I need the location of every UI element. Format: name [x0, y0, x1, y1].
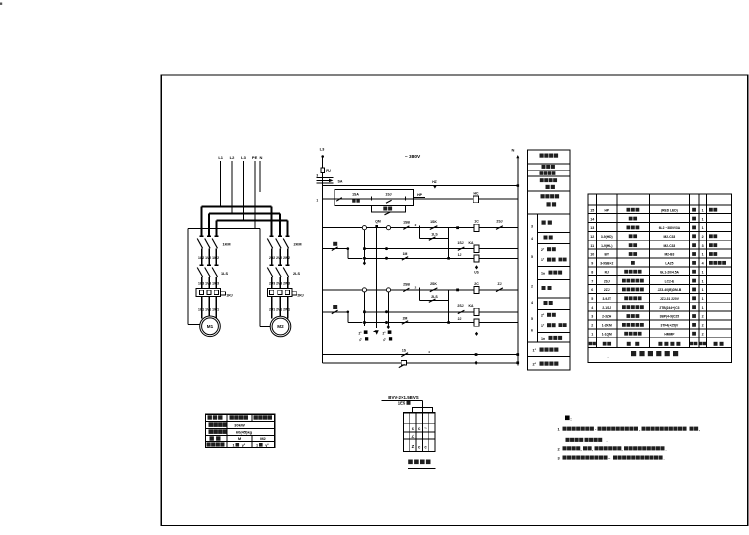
svg-text:1SK: 1SK — [430, 220, 437, 224]
svg-text:2: 2 — [702, 315, 704, 319]
svg-text:1SJ: 1SJ — [457, 241, 463, 245]
svg-text:7: 7 — [591, 279, 593, 283]
coil 2 row3 — [474, 319, 479, 326]
contact 2 row3 — [402, 321, 408, 325]
svg-text:1RJ: 1RJ — [226, 293, 232, 297]
wire control row 2 — [323, 198, 518, 200]
svg-text:3BP(4-9)C25: 3BP(4-9)C25 — [660, 315, 680, 319]
svg-text:QM: QM — [375, 220, 381, 224]
label 2 branch — [333, 305, 337, 309]
control section 1 — [323, 220, 518, 275]
control section 2 — [323, 282, 518, 336]
svg-text:2: 2 — [702, 235, 704, 239]
time relay sub-box label — [383, 207, 392, 211]
svg-text:2-1SJ: 2-1SJ — [602, 306, 611, 310]
wire motor2 leads — [272, 297, 288, 319]
svg-text:2LS: 2LS — [431, 295, 438, 299]
svg-text:1C: 1C — [474, 220, 479, 224]
svg-text:5: 5 — [531, 317, 533, 321]
wire bus drop left pole3 — [215, 221, 217, 237]
junction square 1 mid — [456, 226, 459, 229]
contact 2LS in loop — [429, 299, 436, 302]
wire 2 start row — [323, 289, 518, 291]
wire bottom row A — [323, 354, 518, 356]
svg-text:1SJ: 1SJ — [385, 193, 391, 197]
wire 1 row2 — [364, 248, 517, 250]
svg-text:FU: FU — [326, 169, 331, 173]
legend text rows — [540, 154, 560, 207]
svg-text:1U1 1V1 1W1: 1U1 1V1 1W1 — [198, 308, 219, 312]
junction square 2 mid — [456, 289, 459, 292]
svg-text:2J: 2J — [458, 317, 462, 321]
svg-text:JZJ-31 220V: JZJ-31 220V — [660, 297, 680, 301]
contact 1SA — [336, 198, 342, 202]
svg-text:1KM: 1KM — [222, 243, 230, 247]
busbar phase B — [209, 213, 280, 215]
wire feeder PE — [254, 161, 256, 229]
svg-text:L3: L3 — [241, 155, 246, 160]
svg-text:2LS: 2LS — [293, 272, 300, 276]
label 1 branch — [333, 242, 337, 246]
contact below row B — [399, 364, 405, 367]
svg-text:HMMP: HMMP — [664, 332, 675, 336]
diamond end 1A — [363, 261, 366, 265]
svg-text:GL1-20/4.5A: GL1-20/4.5A — [660, 270, 680, 274]
svg-text:N: N — [512, 148, 515, 153]
contact 2 branch — [332, 310, 338, 314]
svg-text:1±: 1± — [541, 272, 545, 276]
svg-text:.: . — [664, 456, 665, 461]
junction square rowA right — [516, 353, 519, 356]
contact below sub-box — [385, 212, 391, 215]
svg-text:PE: PE — [252, 155, 258, 160]
wire 1A column — [363, 230, 365, 262]
wire bus drop right pole2 — [279, 214, 281, 237]
junction square 2A3 — [363, 321, 366, 324]
svg-text:JZ3-40(B)DM-B: JZ3-40(B)DM-B — [658, 288, 682, 292]
note line 2 — [558, 446, 667, 451]
junction dot 2B2 — [385, 310, 388, 313]
svg-text:5: 5 — [531, 255, 533, 259]
svg-text:1-1QM: 1-1QM — [602, 332, 612, 336]
junction dot 2B3 — [385, 321, 388, 324]
contact 1 row2 — [458, 247, 465, 250]
pump data table text — [207, 415, 273, 447]
svg-text:BVV-2×1.5BVS: BVV-2×1.5BVS — [388, 395, 418, 400]
svg-text:LC2-E: LC2-E — [665, 279, 675, 283]
legend bottom row 1 — [533, 348, 559, 353]
wire right rail N — [517, 156, 519, 365]
svg-text:1: 1 — [702, 306, 704, 310]
svg-text:2: 2 — [702, 324, 704, 328]
junction arrow HZ — [432, 180, 437, 189]
note line 1 — [558, 427, 701, 432]
wire 2 junction column — [448, 290, 450, 323]
breaker 1LS contacts — [197, 265, 218, 288]
svg-text:3: 3 — [702, 244, 704, 248]
svg-text:1M: 1M — [403, 252, 408, 256]
svg-text:,: , — [639, 427, 640, 432]
coil 2C — [474, 286, 479, 293]
wire feeder N — [259, 161, 261, 192]
svg-text:N: N — [260, 155, 263, 160]
svg-text:11: 11 — [590, 244, 594, 248]
svg-text:1S: 1S — [402, 348, 407, 352]
svg-text:HC: HC — [474, 192, 479, 196]
svg-text:M2-C33: M2-C33 — [664, 244, 676, 248]
parts table title — [607, 351, 678, 359]
svg-text:2°: 2° — [533, 363, 537, 367]
svg-text:BY: BY — [604, 253, 609, 257]
svg-text:HP: HP — [604, 208, 609, 212]
contact 1SB — [403, 226, 409, 230]
thermal overload 2RJ — [267, 289, 297, 297]
legend bottom row 2 — [533, 362, 559, 367]
junction square rowA mid — [475, 353, 478, 356]
diamond below coil 2 — [475, 332, 478, 336]
junction arrow N rail top — [516, 155, 519, 158]
coil 1 row3 — [474, 255, 479, 262]
svg-text:3: 3 — [316, 173, 318, 177]
svg-text:6L2 ~380V/3A: 6L2 ~380V/3A — [659, 226, 681, 230]
legend table frame — [527, 150, 570, 370]
svg-text:1: 1 — [702, 217, 704, 221]
thermal overload 1RJ — [196, 289, 226, 297]
diamond end 2B — [387, 325, 390, 329]
svg-text:4: 4 — [531, 237, 533, 241]
svg-text:1-2KM: 1-2KM — [602, 324, 612, 328]
svg-text:1E5: 1E5 — [398, 401, 406, 406]
corner speck — [0, 3, 2, 5]
terminal circle 1B — [386, 226, 390, 230]
svg-text:3-9SB×2: 3-9SB×2 — [600, 262, 613, 266]
wire bus drop left pole2 — [208, 214, 210, 237]
svg-text:3-9JT: 3-9JT — [602, 297, 611, 301]
svg-text:,: , — [581, 446, 582, 451]
contactor 1KM main contacts — [197, 236, 218, 264]
contact 1 seal right — [496, 226, 503, 230]
drawing frame border — [161, 75, 747, 526]
junction square 1A2 — [363, 247, 366, 250]
note line 1b — [566, 438, 608, 443]
wire bus drop right pole1 — [271, 207, 273, 237]
terminal strip header boxes — [413, 408, 433, 413]
svg-text:.: . — [666, 446, 667, 451]
junction dot 1B2 — [385, 247, 388, 250]
junction square 2A2 — [363, 311, 366, 314]
wire bus drop left pole1 — [201, 207, 203, 237]
parts table content rows — [590, 208, 726, 337]
junction square top rail right — [517, 184, 520, 187]
svg-text:.: . — [607, 438, 608, 443]
svg-text:2: 2 — [702, 332, 704, 336]
coil 2 row2 — [474, 308, 479, 315]
svg-text:LA25: LA25 — [665, 262, 673, 266]
svg-text:2SJ: 2SJ — [604, 279, 610, 283]
wire 2 row3 — [364, 322, 517, 324]
svg-text:.: . — [607, 354, 608, 359]
busbar phase C — [216, 220, 287, 222]
wire motor1 leads — [202, 297, 217, 319]
note line 3 — [558, 456, 665, 461]
contact 2SB — [403, 288, 409, 292]
junction dot 2 branch corner — [347, 311, 350, 314]
svg-text:,: , — [592, 446, 593, 451]
legend table rows — [527, 164, 570, 214]
svg-text:8: 8 — [591, 270, 593, 274]
wire left rail — [322, 186, 324, 363]
svg-text:13: 13 — [590, 226, 594, 230]
svg-text:2-3ZH: 2-3ZH — [602, 315, 612, 319]
svg-text:,: , — [622, 446, 623, 451]
svg-text:6: 6 — [591, 288, 593, 292]
wire 1 row3 — [364, 257, 517, 259]
svg-text:2U1 2V1 2W1: 2U1 2V1 2W1 — [269, 308, 290, 312]
svg-text:1-9(HL): 1-9(HL) — [601, 244, 612, 248]
svg-text:M1: M1 — [207, 324, 214, 329]
SA position indicator 3 — [382, 330, 392, 342]
wire 1 branch row — [323, 249, 363, 259]
svg-text:~: ~ — [424, 426, 427, 431]
svg-text:L3: L3 — [320, 147, 325, 152]
svg-text:L1: L1 — [218, 155, 223, 160]
wire 2 branch row — [323, 312, 363, 323]
SA position indicator 1 — [358, 330, 368, 342]
svg-text:4: 4 — [531, 301, 533, 305]
junction dot control feed — [321, 155, 324, 158]
svg-text:2: 2 — [531, 285, 533, 289]
legend split column — [527, 214, 570, 356]
wire feeder L2 — [231, 161, 233, 214]
wire 2 bypass loop — [420, 290, 449, 301]
svg-text:2C: 2C — [474, 282, 479, 286]
pump data table — [205, 414, 274, 447]
junction square 2 j3 — [447, 321, 450, 324]
svg-text:14: 14 — [590, 217, 594, 221]
label 10 — [352, 199, 360, 202]
svg-text:KA: KA — [469, 304, 474, 308]
cable label BVV — [382, 395, 423, 406]
svg-text:3-9(HD): 3-9(HD) — [601, 235, 613, 239]
wire 2A column — [363, 292, 365, 326]
svg-text:2KM: 2KM — [293, 243, 301, 247]
svg-text:2TB(244+)C3: 2TB(244+)C3 — [659, 306, 679, 310]
motor M1 — [200, 316, 221, 337]
contact 1SJ in box — [386, 200, 392, 203]
switch QM column — [375, 220, 381, 328]
svg-text:3TF4(+25)V: 3TF4(+25)V — [661, 324, 679, 328]
time relay sub-box — [371, 206, 405, 212]
svg-text:1: 1 — [702, 253, 704, 257]
svg-text:≀7: ≀7 — [383, 338, 386, 342]
svg-text:HZ: HZ — [432, 180, 437, 184]
svg-text:M2: M2 — [277, 324, 284, 329]
svg-text:M2-C33: M2-C33 — [664, 235, 676, 239]
svg-text:1LS: 1LS — [221, 272, 228, 276]
svg-text:1: 1 — [702, 208, 704, 212]
wire bottom row B — [323, 362, 518, 364]
svg-text:1: 1 — [702, 270, 704, 274]
svg-text:1U2 1V2 1W2: 1U2 1V2 1W2 — [198, 256, 219, 260]
wire 1 start row — [323, 227, 518, 229]
svg-text:1±: 1± — [541, 337, 545, 341]
motor M2 — [270, 316, 291, 337]
contact 2SK — [430, 288, 438, 292]
svg-text:1SB: 1SB — [403, 221, 410, 225]
svg-text:US: US — [474, 271, 478, 275]
svg-text:1: 1 — [591, 332, 593, 336]
junction tick a — [370, 196, 372, 200]
contact 1SK — [430, 226, 438, 230]
terminal circle 1A — [362, 226, 366, 230]
svg-text:2SJ: 2SJ — [496, 220, 502, 224]
svg-text:L2: L2 — [230, 155, 235, 160]
svg-text:2SK: 2SK — [430, 282, 437, 286]
svg-text:5: 5 — [591, 297, 593, 301]
wire 2 row2 — [364, 311, 517, 313]
svg-text:2SB: 2SB — [403, 283, 410, 287]
selector box 1SA — [335, 190, 414, 206]
svg-text:~ 380V: ~ 380V — [405, 154, 421, 160]
svg-text:Z: Z — [412, 444, 415, 449]
terminal grid marks — [411, 426, 427, 450]
svg-text:RJ: RJ — [605, 270, 609, 274]
parts list table — [588, 194, 732, 363]
svg-text:1: 1 — [232, 444, 234, 448]
svg-text:2U2 2V2 2W2: 2U2 2V2 2W2 — [269, 256, 290, 260]
wire cable leader — [422, 400, 424, 407]
svg-text:2U3 2V3 2W3: 2U3 2V3 2W3 — [269, 281, 290, 285]
svg-text:ZJ: ZJ — [497, 282, 501, 286]
contact 2 seal right — [496, 288, 503, 292]
busbar phase A — [202, 206, 272, 208]
wire bus drop right pole3 — [287, 221, 289, 237]
svg-text:10: 10 — [590, 253, 594, 257]
contact 1 branch — [332, 247, 338, 251]
svg-text:1U3 1V3 1W3: 1U3 1V3 1W3 — [198, 281, 219, 285]
wire HP stub — [413, 197, 424, 199]
svg-text:4: 4 — [702, 262, 704, 266]
svg-text:15: 15 — [590, 208, 594, 212]
contact bottom row A — [401, 353, 408, 357]
svg-text:1: 1 — [256, 444, 258, 448]
diamond row B — [475, 361, 478, 365]
coil 1C — [474, 224, 479, 231]
svg-text:2RJ: 2RJ — [297, 293, 303, 297]
svg-text:1: 1 — [702, 297, 704, 301]
svg-text:1: 1 — [316, 198, 318, 202]
component box row B — [401, 360, 406, 365]
notes block — [565, 416, 572, 422]
isolator SA — [317, 178, 334, 183]
contactor 2KM main contacts — [267, 236, 289, 264]
svg-text:6: 6 — [531, 329, 533, 333]
terminal circle 2A — [362, 288, 366, 292]
junction tick 2 loop left — [419, 288, 421, 293]
svg-text:1LS: 1LS — [431, 233, 438, 237]
svg-text:KA: KA — [469, 241, 474, 245]
wire 1 junction column — [448, 228, 450, 259]
terminal circle 2B — [386, 288, 390, 292]
svg-text:3: 3 — [591, 315, 593, 319]
wire 1 bypass loop — [420, 228, 449, 239]
svg-text:≀7: ≀7 — [359, 338, 362, 342]
svg-text:2M: 2M — [403, 316, 408, 320]
contact 1 row3 — [402, 257, 408, 261]
svg-text:,: , — [699, 427, 700, 432]
terminal grid caption — [408, 460, 436, 469]
svg-text:1: 1 — [702, 226, 704, 230]
junction tick 1 loop left — [419, 225, 421, 230]
contact 2 row2 — [458, 310, 465, 313]
wire top rail — [323, 185, 518, 187]
wire control feed drop — [322, 157, 324, 186]
svg-text:HP: HP — [417, 193, 423, 197]
parts table header row — [589, 342, 724, 346]
coil HZ — [473, 196, 478, 203]
svg-text:3: 3 — [531, 225, 533, 229]
breaker 2LS contacts — [267, 265, 289, 288]
diamond below coil 1 — [475, 265, 478, 269]
junction square 1 j3 — [447, 257, 450, 260]
wire PE bond conductor — [188, 229, 270, 327]
legend numbers column — [531, 225, 533, 333]
svg-text:2ZJ: 2ZJ — [604, 288, 610, 292]
svg-text:60(45)kg: 60(45)kg — [236, 430, 253, 435]
fuse FU — [321, 168, 325, 172]
svg-text:4: 4 — [591, 306, 593, 310]
svg-text:1J: 1J — [458, 253, 462, 257]
svg-text:1°: 1° — [533, 349, 537, 353]
contact 1LS in loop — [429, 237, 436, 240]
junction square rowB right — [516, 361, 519, 364]
junction dot 1B3 — [385, 257, 388, 260]
svg-text:1: 1 — [702, 279, 704, 283]
svg-text:2: 2 — [591, 324, 593, 328]
terminal strip grid — [404, 413, 436, 452]
wire 2B column tail — [388, 292, 390, 326]
svg-text:1SA: 1SA — [352, 193, 359, 197]
wire feeder L3 — [243, 161, 245, 221]
svg-text:1: 1 — [702, 288, 704, 292]
wire feeder L1 — [220, 161, 222, 207]
coil 1 row2 — [474, 245, 479, 252]
SA position indicator 2 — [373, 330, 378, 335]
junction dot 1 branch corner — [347, 247, 350, 250]
svg-text:M2: M2 — [260, 436, 266, 441]
junction square 1A3 — [363, 257, 366, 260]
svg-text:SA: SA — [338, 179, 343, 183]
svg-text:30kW: 30kW — [234, 423, 245, 428]
junction tick b — [404, 196, 406, 200]
svg-text:12: 12 — [590, 235, 594, 239]
svg-text:M2-B3: M2-B3 — [664, 253, 674, 257]
svg-text:2SJ: 2SJ — [457, 304, 463, 308]
svg-text:(RED LED): (RED LED) — [661, 208, 678, 212]
legend split text rows — [541, 221, 567, 341]
svg-text:9: 9 — [591, 262, 593, 266]
